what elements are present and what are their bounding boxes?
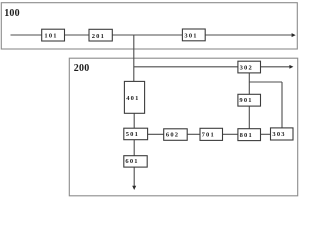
svg-text:401: 401: [126, 95, 139, 102]
wire 601 output shaft: [133, 167, 135, 186]
block 100 (outer container): [1, 3, 297, 49]
wire 401 to 501: [133, 113, 135, 128]
block 301: [182, 29, 205, 41]
wire branch to 303 horizontal: [249, 81, 282, 83]
svg-text:602: 602: [166, 132, 179, 139]
svg-text:101: 101: [44, 33, 57, 40]
wire 302 to 901: [248, 73, 250, 94]
block 501: [124, 128, 148, 140]
svg-text:200: 200: [74, 63, 90, 74]
svg-text:100: 100: [4, 8, 20, 19]
svg-text:302: 302: [240, 65, 253, 72]
svg-text:901: 901: [239, 97, 252, 104]
arrow main bus output: [292, 33, 296, 37]
svg-text:701: 701: [202, 132, 215, 139]
svg-text:201: 201: [92, 33, 105, 40]
svg-text:501: 501: [126, 131, 139, 138]
wire horizontal to 302 and output: [134, 66, 290, 68]
wire 602 to 701: [187, 133, 200, 135]
wire 501 to 602: [148, 133, 164, 135]
block 701: [200, 128, 223, 140]
svg-text:301: 301: [184, 33, 197, 40]
wire 901 to 801: [248, 106, 250, 129]
block 401: [124, 81, 144, 113]
block 200 (outer container): [69, 58, 297, 196]
block 801: [238, 129, 261, 141]
block 601: [124, 156, 147, 167]
svg-text:801: 801: [240, 132, 253, 139]
block 303: [271, 128, 294, 140]
arrow 302 output: [289, 65, 293, 69]
arrow 601 output: [132, 186, 136, 190]
wire vertical drop from bus to 401: [133, 35, 135, 82]
block 201: [89, 29, 112, 41]
block 302: [238, 61, 261, 73]
wire 801 to 303: [261, 133, 271, 135]
block 101: [42, 29, 65, 41]
wire branch to 303 vertical: [281, 82, 283, 128]
svg-text:303: 303: [272, 131, 285, 138]
wire main bus: [11, 34, 293, 36]
block 602: [164, 129, 188, 141]
block 901: [238, 94, 261, 106]
svg-text:601: 601: [125, 158, 138, 165]
wire 701 to 801: [223, 133, 238, 135]
wire 501 to 601: [133, 140, 135, 156]
